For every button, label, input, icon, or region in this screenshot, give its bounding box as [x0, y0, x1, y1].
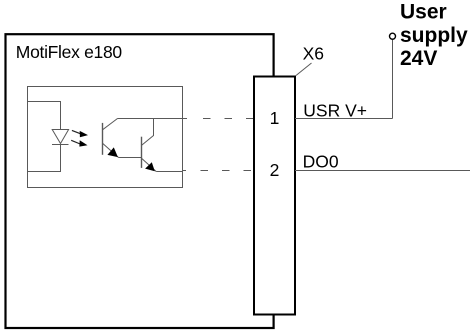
- wire USR V+: [295, 118, 393, 120]
- svg-text:2: 2: [270, 160, 280, 180]
- wire LED anode (top): [28, 102, 61, 130]
- dashed wire collector to X6 pin 1: [183, 118, 254, 120]
- connector X6 body: [254, 77, 295, 315]
- Q1 emitter arrowhead: [107, 147, 118, 157]
- svg-text:MotiFlex e180: MotiFlex e180: [16, 42, 123, 62]
- wire collector rail (top): [118, 118, 183, 120]
- LED D1 triangle: [52, 130, 68, 144]
- Q1 emitter: [103, 143, 119, 157]
- svg-text:1: 1: [270, 108, 280, 128]
- optocoupler U1 package: [28, 87, 183, 188]
- LED D1 cathode bar: [52, 144, 69, 146]
- phototransistor Q1 base bar: [102, 123, 104, 155]
- svg-text:User: User: [400, 1, 447, 24]
- wire LED cathode (bottom): [28, 145, 61, 172]
- Q2 emitter arrowhead: [145, 162, 155, 171]
- Q2 collector: [142, 119, 154, 146]
- svg-text:USR V+: USR V+: [303, 101, 367, 121]
- wire Q2 emitter to package edge: [156, 171, 182, 173]
- wire Q1 emitter to Q2 base: [119, 157, 142, 159]
- svg-text:DO0: DO0: [303, 152, 339, 172]
- light emission arrow 1: [72, 130, 88, 137]
- light emission arrow 2: [71, 140, 87, 146]
- dashed wire emitter to X6 pin 2: [183, 170, 252, 172]
- X6 leader line: [296, 63, 312, 76]
- MotiFlex e180 enclosure box: [6, 34, 274, 328]
- svg-text:24V: 24V: [400, 47, 437, 70]
- wire DO0: [295, 170, 470, 172]
- svg-text:X6: X6: [303, 44, 324, 64]
- Q1 collector: [103, 119, 118, 130]
- svg-text:supply: supply: [400, 24, 468, 47]
- transistor Q2 base bar: [141, 137, 143, 168]
- terminal user supply: [390, 33, 396, 39]
- Q2 emitter: [142, 158, 157, 171]
- wire user supply: [392, 40, 394, 119]
